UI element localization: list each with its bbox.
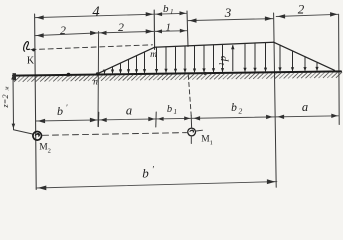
load ramp down line	[274, 42, 335, 70]
svg-text:2: 2	[60, 25, 66, 37]
dimension line 2 (second row left)	[35, 33, 99, 36]
extension line left boundary (K axis)	[35, 14, 37, 190]
svg-text:b: b	[163, 3, 169, 15]
load arrow ramp-up 3	[120, 63, 122, 73]
svg-text:2: 2	[298, 1, 305, 16]
svg-text:1: 1	[170, 8, 174, 16]
load arrow ramp-up 6	[144, 52, 146, 73]
svg-text:2: 2	[118, 22, 124, 34]
svg-text:b: b	[231, 102, 237, 114]
extension line apex tick x=154	[153, 10, 155, 50]
load arrow uniform 11	[265, 43, 267, 71]
dimension a (lower right)	[278, 115, 285, 119]
svg-text:z=2: z=2	[0, 94, 10, 109]
svg-text:1: 1	[210, 139, 213, 146]
ground surface line	[13, 71, 341, 75]
svg-text:b: b	[57, 104, 63, 118]
svg-text:п: п	[93, 78, 98, 88]
load arrow ramp-down 4	[316, 62, 318, 70]
svg-text:4: 4	[92, 4, 99, 20]
load arrow ramp-up 5	[136, 56, 138, 73]
junction dot at ramp start n	[96, 72, 99, 75]
svg-text:1: 1	[173, 108, 177, 116]
load intensity arrow p1 (up)	[232, 46, 234, 71]
dimension line 2 (top right)	[276, 14, 338, 16]
svg-text:1: 1	[166, 23, 171, 34]
dimension line 1 (second row)	[154, 30, 187, 33]
dimension line 4 (top left span)	[35, 14, 155, 17]
load arrow uniform 6	[203, 45, 205, 72]
load arrow uniform 4	[184, 46, 186, 72]
tick at b1/b2 junction	[190, 116, 192, 128]
load arrow ramp-up 1	[104, 70, 106, 73]
svg-text:b: b	[167, 104, 172, 115]
dimension z=2m (rotated, left edge)	[12, 74, 15, 130]
dimension b1 (lower)	[158, 117, 164, 121]
svg-text:2: 2	[239, 106, 243, 115]
junction dot on ground 2	[204, 72, 207, 75]
load arrow uniform 1	[156, 47, 158, 72]
extension line at x=98 (n axis)	[97, 32, 100, 127]
svg-text:2: 2	[48, 147, 51, 154]
dimension line b1 (top)	[154, 12, 187, 15]
svg-text:1: 1	[218, 62, 226, 66]
load arrow ramp-up 2	[112, 67, 114, 73]
level line l (dashed) with label	[31, 45, 153, 50]
dimension b2 (lower)	[194, 116, 201, 120]
junction dot on ground	[67, 73, 71, 77]
svg-text:3: 3	[224, 5, 232, 20]
dimension line 2 (second row right)	[99, 31, 155, 33]
load arrow uniform 10	[254, 43, 256, 71]
svg-text:b: b	[142, 166, 149, 181]
load arrow uniform 2	[165, 47, 167, 72]
svg-text:м: м	[5, 86, 11, 91]
svg-text:′: ′	[66, 102, 68, 112]
tick at x=156 (lower)	[155, 112, 157, 127]
dimension line 3	[187, 19, 273, 21]
load arrow ramp-up 4	[128, 59, 130, 72]
dashed line M2 to M1	[43, 133, 187, 136]
ground hatching	[14, 76, 20, 82]
moment symbol M1	[188, 128, 196, 136]
svg-text:a: a	[126, 104, 132, 118]
load arrow uniform 7	[213, 45, 215, 72]
svg-text:K: K	[27, 56, 35, 67]
load arrow ramp-down 3	[304, 57, 306, 71]
load top line	[155, 42, 274, 47]
dimension a (lower left)	[100, 118, 107, 122]
load arrow ramp-down 1	[279, 45, 281, 71]
load arrow uniform 3	[175, 46, 177, 72]
dimension b-prime (bottom overall)	[36, 182, 277, 188]
tick at x=99 (lower)	[97, 112, 99, 126]
extension line right boundary x=339	[338, 14, 341, 124]
load ramp up line	[97, 47, 154, 74]
load arrow uniform 5	[194, 46, 196, 72]
svg-text:a: a	[302, 100, 308, 114]
load arrow uniform 9	[244, 43, 246, 71]
lower dimension chain line	[36, 116, 339, 121]
dimension b-prime (lower left)	[38, 119, 46, 123]
dashed axis x=189 down to M1	[188, 75, 191, 116]
extension line x=274 (load end)	[274, 13, 277, 187]
load arrow uniform 8	[222, 44, 224, 71]
load arrow ramp-down 2	[292, 51, 294, 71]
svg-text:p: p	[217, 55, 229, 62]
extension line x=187 (b1 boundary upper)	[187, 11, 188, 47]
moment symbol M2	[33, 132, 42, 141]
